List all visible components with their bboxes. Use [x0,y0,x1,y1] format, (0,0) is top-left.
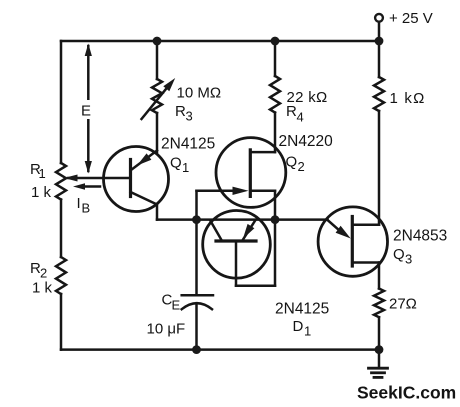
svg-text:4: 4 [297,110,304,125]
svg-text:1: 1 [182,160,189,175]
svg-text:I: I [77,195,81,212]
svg-text:2: 2 [40,266,47,281]
svg-text:Q: Q [286,154,298,171]
svg-text:1 k: 1 k [32,280,53,297]
svg-text:2N4125: 2N4125 [275,301,329,318]
svg-text:+ 25 V: + 25 V [389,10,433,27]
svg-text:E: E [81,103,91,120]
svg-text:Q: Q [393,246,405,263]
svg-text:D: D [293,318,304,335]
svg-text:3: 3 [405,252,412,267]
svg-text:1: 1 [39,166,46,181]
svg-text:R: R [175,103,186,120]
svg-text:1 kΩ: 1 kΩ [390,90,426,107]
svg-text:3: 3 [186,109,193,124]
svg-text:27Ω: 27Ω [389,296,417,313]
svg-text:10 μF: 10 μF [147,321,186,338]
svg-text:R: R [286,103,297,120]
svg-text:B: B [82,201,91,216]
svg-text:2N4853: 2N4853 [393,228,447,245]
svg-text:1: 1 [304,324,311,339]
svg-text:Q: Q [170,155,182,172]
svg-text:2N4220: 2N4220 [279,133,334,150]
svg-text:SeekIC.com: SeekIC.com [357,383,456,403]
svg-text:2N4125: 2N4125 [161,136,215,153]
svg-text:2: 2 [298,159,305,174]
svg-text:1 k: 1 k [31,184,52,201]
svg-text:10 MΩ: 10 MΩ [177,85,222,102]
svg-text:E: E [172,298,181,313]
